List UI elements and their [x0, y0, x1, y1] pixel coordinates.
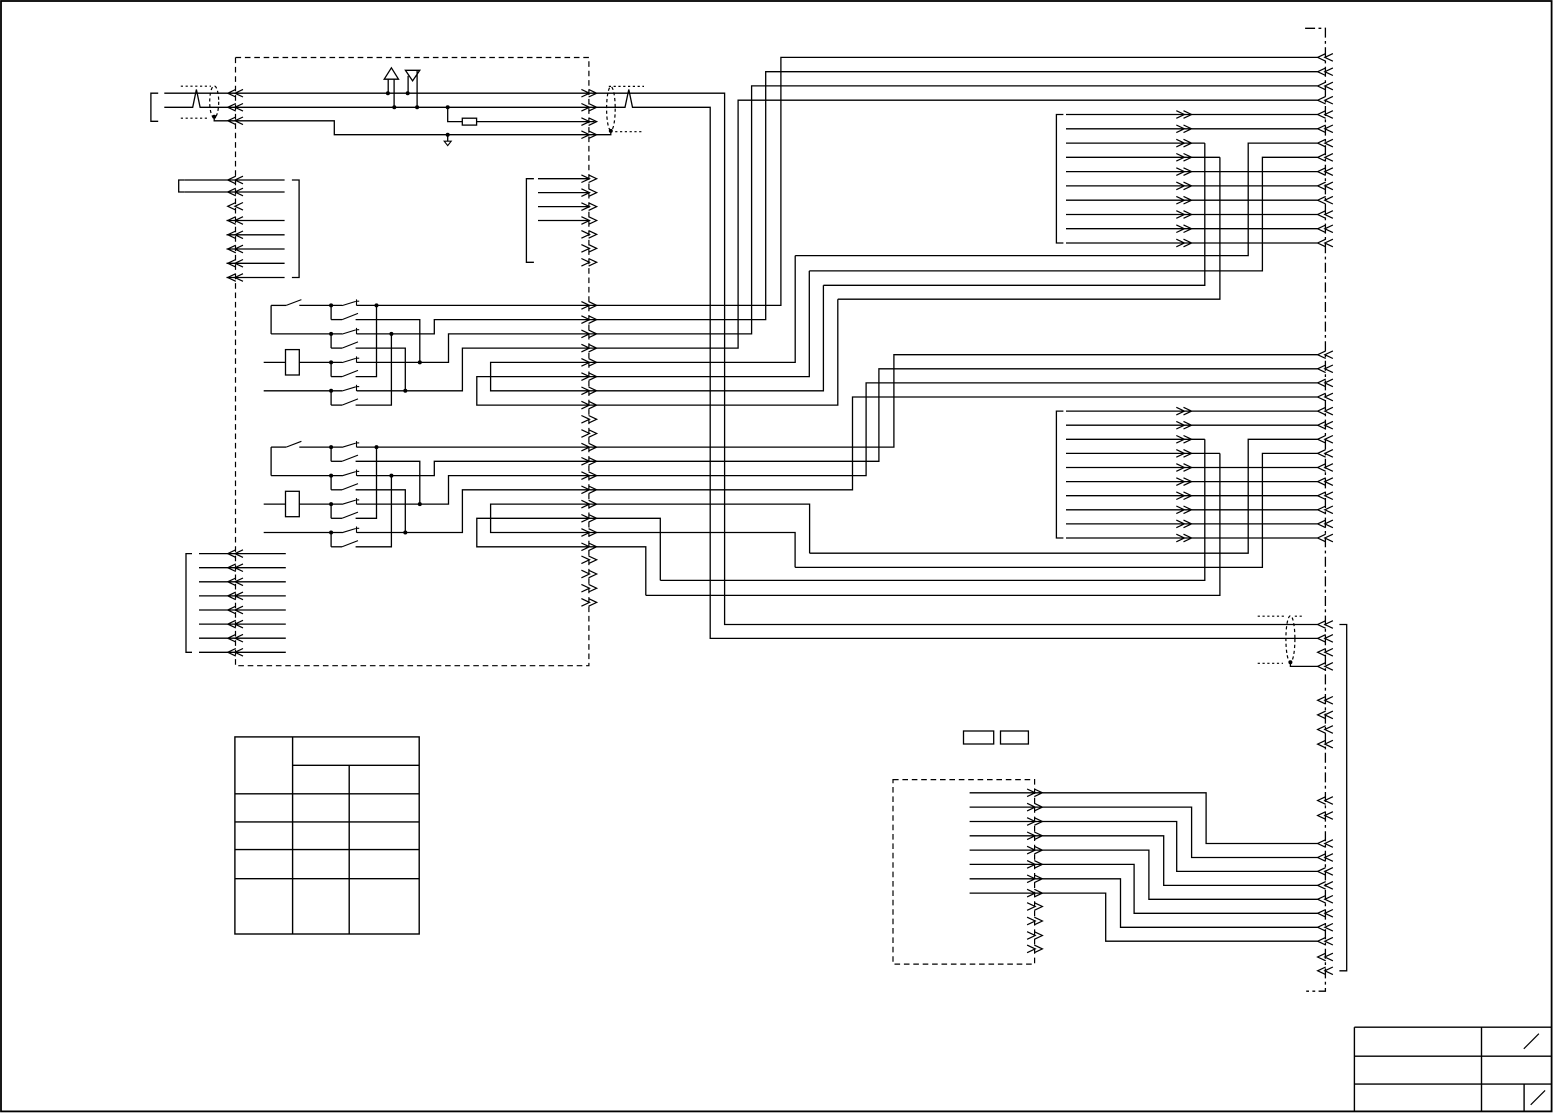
connector chevron right-B row5: [581, 231, 596, 239]
contact K21 junction: [329, 445, 333, 449]
wire aux row5: [970, 850, 1318, 899]
right shield dotted outline: [609, 85, 644, 87]
connector chevron aux-out row1: [1027, 789, 1042, 797]
connector chevron boundary-2 row14: [1318, 534, 1333, 542]
junction up-arrow leg W1: [386, 91, 390, 95]
wire block1 contact2-lower tie: [356, 348, 406, 391]
connector chevron right-B row6: [581, 245, 596, 253]
connector chevron right-B row2: [581, 189, 596, 197]
wire block2 loop row5-row7: [491, 504, 810, 567]
connector chevron bracket-D row2: [1176, 125, 1191, 133]
connector chevron aux-out row6: [1027, 861, 1042, 869]
left input bracket A: [179, 180, 185, 192]
wire bracket-D row4: [1066, 156, 1220, 158]
left shield junction: [212, 115, 216, 119]
wire resistor feed: [448, 107, 463, 121]
wire bracket-D row6: [1066, 185, 1318, 187]
connector chevron spare-A row3: [1318, 726, 1333, 734]
connector chevron aux-out row4: [1027, 832, 1042, 840]
wire left-A row2: [185, 191, 285, 193]
connector chevron bracket-E row8: [1176, 506, 1191, 514]
wire W1 top pair (+) long run to lower-right shield: [164, 93, 1317, 624]
contact K12 lower blade: [330, 334, 332, 348]
contact K24 upper blade: [342, 529, 356, 533]
connector chevron W3 right: [581, 131, 596, 139]
connector chevron block1 row9: [581, 416, 596, 424]
connector chevron lower-shield row3: [1318, 649, 1333, 657]
connector chevron right-B row4: [581, 217, 596, 225]
connector chevron bracket-E row7: [1176, 492, 1191, 500]
wire left-C row1: [199, 553, 286, 555]
wire bracket-E row2: [1066, 424, 1318, 426]
junction down-arrow leg W1: [406, 91, 410, 95]
contact K12 upper blade: [342, 330, 356, 334]
lower shield dotted outline: [1258, 615, 1286, 617]
connector chevron left-A row6: [228, 245, 243, 253]
connector chevron bracket-D row7: [1176, 196, 1191, 204]
wire loop1 lower run: [823, 143, 1204, 285]
connector chevron W2 right: [581, 104, 596, 112]
connector chevron W3 left: [228, 117, 243, 125]
wire W3 shield drain: [214, 117, 611, 135]
ground symbol: [447, 135, 449, 142]
connector chevron lower-shield row1: [1318, 621, 1333, 629]
title block: [1354, 1027, 1551, 1111]
connector chevron block2 row6: [581, 515, 596, 523]
connector chevron lower-shield row2: [1318, 635, 1333, 643]
connector chevron block2 row7: [581, 529, 596, 537]
right shield ellipse: [607, 87, 616, 131]
wire left-A row8 stub: [227, 277, 285, 279]
connector chevron block2 row12: [581, 599, 596, 607]
wire block1 row4 to top bus: [357, 100, 1318, 391]
connector chevron bracket-E row4: [1176, 450, 1191, 458]
connector chevron boundary-2 row13: [1318, 520, 1333, 528]
connector chevron bracket-D row6: [1176, 182, 1191, 190]
wire 2 contact4 common: [264, 532, 342, 534]
connector chevron left-A row3: [228, 203, 243, 211]
connector chevron boundary-1 row5: [1318, 111, 1333, 119]
junction block1 row5 tie: [418, 360, 422, 364]
connector chevron spare-B row1: [1318, 797, 1333, 805]
wire bracket-D row2: [1066, 128, 1318, 130]
switch S1 blade: [271, 304, 286, 306]
auxiliary unit dashed box: [893, 780, 1035, 965]
connector chevron boundary-3 row4: [1318, 882, 1333, 890]
wire lower shield drain: [1290, 662, 1317, 666]
connector chevron aux-spare row3: [1027, 932, 1042, 940]
wire loop2 lower run: [838, 157, 1220, 299]
connector chevron boundary-2 row2: [1318, 365, 1333, 373]
contact K23 upper blade: [342, 500, 356, 504]
connector chevron spare-C row2: [1318, 967, 1333, 975]
junction block2 row7 tie: [403, 531, 407, 535]
wire right-B row2: [538, 192, 589, 194]
contact K13 lower blade: [330, 362, 332, 376]
wire bracket-D row5: [1066, 171, 1318, 173]
surge arrester down-arrow symbol: [405, 70, 419, 81]
contact K24 lower blade: [330, 533, 332, 547]
connector chevron boundary-2 row1: [1318, 351, 1333, 359]
wire loop3 lower run: [795, 453, 1318, 567]
junction down-arrow leg W2: [415, 105, 419, 109]
connector chevron boundary-1 row8: [1318, 154, 1333, 162]
wire block1 row3 to top bus: [357, 86, 1318, 363]
connector chevron boundary-3 row6: [1318, 910, 1333, 918]
contact K11 junction: [329, 303, 333, 307]
connector chevron bracket-D row4: [1176, 154, 1191, 162]
connector chevron left-C row1: [228, 550, 243, 558]
wire aux row7: [970, 879, 1318, 928]
wire right-B row4: [538, 220, 589, 222]
connector chevron left-C row6: [228, 620, 243, 628]
connector chevron left-A row2: [228, 188, 243, 196]
contact K21 upper blade: [342, 443, 356, 447]
wire aux row4: [970, 836, 1318, 886]
connector chevron spare-B row2: [1318, 812, 1333, 820]
connector chevron bracket-D row5: [1176, 168, 1191, 176]
connector chevron left-A row1: [228, 176, 243, 184]
connector chevron boundary-3 row7: [1318, 924, 1333, 932]
right output bracket B: [526, 179, 534, 263]
resistor R1: [286, 350, 300, 375]
connector chevron block2 row5: [581, 500, 596, 508]
connector chevron boundary-1 row12: [1318, 211, 1333, 219]
connector chevron aux-out row2: [1027, 803, 1042, 811]
wire block1 contact4-lower tie: [356, 334, 392, 405]
wire bracket-E row7: [1066, 495, 1318, 497]
wire loop4 lower run: [660, 439, 1205, 580]
signal bracket E: [1056, 411, 1063, 538]
connector chevron spare-C row1: [1318, 953, 1333, 961]
connector chevron block2 row4: [581, 486, 596, 494]
connector chevron boundary-3 row3: [1318, 868, 1333, 876]
wire loop4 bottom run: [646, 453, 1220, 595]
connector chevron block2 row2: [581, 458, 596, 466]
contact K14 upper blade: [342, 387, 356, 391]
connector chevron boundary-2 row11: [1318, 492, 1333, 500]
wire left-A row6 stub: [227, 248, 285, 250]
contact K23 junction: [329, 502, 333, 506]
connector chevron aux-spare row1: [1027, 903, 1042, 911]
connector chevron boundary-1 row2: [1318, 68, 1333, 76]
connector chevron block2 row10: [581, 570, 596, 578]
connector chevron spare-A row4: [1318, 740, 1333, 748]
wire left-C row8: [199, 651, 286, 653]
junction W3 ground tap: [446, 133, 450, 137]
connector chevron block1 row3: [581, 330, 596, 338]
connector chevron W1 left: [228, 89, 243, 97]
wire bracket-D row1: [1066, 114, 1318, 116]
connector chevron boundary-1 row6: [1318, 125, 1333, 133]
connector chevron left-C row2: [228, 564, 243, 572]
connector chevron aux-spare row2: [1027, 917, 1042, 925]
contact K21 lower blade: [330, 447, 332, 461]
connector chevron block2 row1: [581, 443, 596, 451]
wire bracket-D row9: [1066, 228, 1318, 230]
connector chevron spare-A row2: [1318, 711, 1333, 719]
wire W2 top pair (-) long run to lower-right shield: [164, 90, 1317, 639]
wire loop3 upper run: [810, 439, 1318, 553]
connector chevron block2 row8: [581, 543, 596, 551]
switch S2 blade: [271, 446, 286, 448]
wire left-A row4 stub: [227, 220, 285, 222]
connector chevron boundary-2 row7: [1318, 436, 1333, 444]
connector chevron boundary-2 row12: [1318, 506, 1333, 514]
connector chevron aux-out row8: [1027, 889, 1042, 897]
connector chevron aux-out row7: [1027, 875, 1042, 883]
wire bracket-D row8: [1066, 214, 1318, 216]
wire 1 resistor row stub: [264, 361, 286, 363]
connector chevron boundary-3 row2: [1318, 854, 1333, 862]
connector chevron block1 row10: [581, 430, 596, 438]
wire bracket-D row3: [1066, 142, 1205, 144]
wire left-A row5 stub: [227, 234, 285, 236]
connector chevron left-C row4: [228, 592, 243, 600]
connector chevron block1 row5: [581, 359, 596, 367]
wire aux row3: [970, 822, 1318, 872]
connector chevron bracket-E row2: [1176, 421, 1191, 429]
wire right-B row1: [538, 178, 589, 180]
wire loop2 upper run: [809, 157, 1317, 271]
connector chevron block2 row9: [581, 556, 596, 564]
wire 2 resistor row stub: [264, 503, 286, 505]
wire block2 row3 to boundary: [357, 383, 1318, 504]
connector chevron bracket-E row1: [1176, 407, 1191, 415]
connector chevron bracket-E row3: [1176, 436, 1191, 444]
connector chevron block1 row8: [581, 401, 596, 409]
connector chevron block2 row11: [581, 584, 596, 592]
connector chevron bracket-E row6: [1176, 478, 1191, 486]
connector chevron right-B row1: [581, 175, 596, 183]
connector chevron boundary-2 row8: [1318, 450, 1333, 458]
wire S1 common link vertical: [270, 305, 272, 334]
terminal bracket A right: [292, 180, 299, 278]
connector chevron bracket-E row10: [1176, 534, 1191, 542]
reference table: [235, 737, 419, 934]
wire bracket-E row9: [1066, 523, 1318, 525]
connector chevron block2 row3: [581, 472, 596, 480]
connector chevron bracket-D row1: [1176, 111, 1191, 119]
connector chevron boundary-3 row5: [1318, 896, 1333, 904]
contact K22 upper blade: [342, 472, 356, 476]
connector chevron boundary-1 row4: [1318, 96, 1333, 104]
indicator rectangle 1: [964, 731, 994, 744]
wire bracket-E row3: [1066, 438, 1205, 440]
connector chevron bracket-E row9: [1176, 520, 1191, 528]
wire left-C row7: [199, 637, 286, 639]
wire block1 loop row6-row8: [477, 271, 838, 405]
left shield dotted outline: [181, 85, 211, 87]
wire block2 row1 to boundary: [357, 355, 1318, 447]
connector chevron boundary-2 row9: [1318, 464, 1333, 472]
connector chevron boundary-1 row9: [1318, 168, 1333, 176]
contact K11 lower blade: [330, 305, 332, 319]
wire block2 loop row6-row8: [477, 518, 661, 595]
connector chevron lower-shield row4: [1318, 663, 1333, 671]
wire bracket-E row8: [1066, 509, 1318, 511]
wire left-C row4: [199, 595, 286, 597]
wire left-C row2: [199, 567, 286, 569]
wire loop1 upper run: [795, 143, 1317, 256]
contact K13 upper blade: [342, 358, 356, 362]
connector chevron left-A row4: [228, 217, 243, 225]
wire left-C row5: [199, 609, 286, 611]
connector chevron boundary-3 row8: [1318, 937, 1333, 945]
wire block1 row1 to top bus: [357, 57, 1318, 305]
lower shield ellipse: [1286, 616, 1295, 662]
connector chevron aux-out row5: [1027, 846, 1042, 854]
connector chevron boundary-2 row5: [1318, 407, 1333, 415]
lower shield junction: [1288, 660, 1292, 664]
connector chevron boundary-2 row6: [1318, 421, 1333, 429]
connector chevron resistor wire right: [581, 118, 596, 126]
connector chevron aux-spare row4: [1027, 945, 1042, 953]
contact K22 junction: [329, 474, 333, 478]
connector chevron bracket-D row8: [1176, 211, 1191, 219]
connector chevron block1 row6: [581, 373, 596, 381]
junction block1 row3/contact4-lower: [389, 332, 393, 336]
wire 1 contact4 common: [264, 390, 342, 392]
wire aux row8: [970, 893, 1318, 941]
connector chevron left-C row8: [228, 649, 243, 657]
wire resistor output: [477, 121, 595, 123]
wire 2 resistor to contact3: [299, 503, 342, 505]
connector chevron block1 row4: [581, 344, 596, 352]
connector chevron boundary-1 row13: [1318, 225, 1333, 233]
wire left-A row7 stub: [227, 262, 285, 264]
contact K24 junction: [329, 531, 333, 535]
wire aux row2: [970, 807, 1318, 857]
connector chevron left-C row7: [228, 634, 243, 642]
left cable bracket: [151, 93, 158, 121]
connector chevron bracket-D row3: [1176, 139, 1191, 147]
connector chevron W1 right: [581, 89, 596, 97]
wire bracket-E row1: [1066, 410, 1318, 412]
wire left-C row6: [199, 623, 286, 625]
wire bracket-D row7: [1066, 199, 1318, 201]
wire bracket-E row10: [1066, 537, 1318, 539]
wire block1 contact1-lower tie: [356, 320, 420, 363]
wire block2 contact4-lower tie: [356, 476, 392, 547]
surge arrester up-arrow symbol: [384, 68, 398, 79]
connector chevron block1 row2: [581, 316, 596, 324]
connector chevron bracket-D row9: [1176, 225, 1191, 233]
contact K13 junction: [329, 360, 333, 364]
left input bracket C: [186, 554, 192, 653]
connector chevron boundary-1 row7: [1318, 139, 1333, 147]
signal bracket D: [1056, 115, 1063, 244]
connector chevron left-A row8: [228, 274, 243, 282]
connector chevron aux-out row3: [1027, 818, 1042, 826]
resistor R2: [286, 491, 300, 516]
connector chevron boundary-2 row3: [1318, 379, 1333, 387]
connector chevron boundary-1 row14: [1318, 239, 1333, 247]
interface boundary dash-dot line: [1305, 28, 1325, 991]
wire right-B row3: [538, 206, 589, 208]
connector chevron left-C row5: [228, 606, 243, 614]
connector chevron boundary-2 row10: [1318, 478, 1333, 486]
connector chevron right-B row7: [581, 259, 596, 267]
contact K22 lower blade: [330, 476, 332, 490]
wire S2 common link vertical: [270, 447, 272, 476]
wire bracket-E row6: [1066, 481, 1318, 483]
connector chevron bracket-D row10: [1176, 239, 1191, 247]
indicator rectangle 2: [1001, 731, 1029, 744]
contact K14 junction: [329, 389, 333, 393]
connector chevron boundary-2 row4: [1318, 393, 1333, 401]
junction W2 resistor tap: [446, 105, 450, 109]
wire bracket-D row10: [1066, 242, 1318, 244]
right shield junction: [609, 129, 613, 133]
wire 1 contact2 common: [271, 333, 342, 335]
connector chevron block1 row1: [581, 302, 596, 310]
connector chevron boundary-1 row3: [1318, 82, 1333, 90]
wire bracket-E row5: [1066, 467, 1318, 469]
junction up-arrow leg W2: [392, 105, 396, 109]
connector chevron left-C row3: [228, 578, 243, 586]
connector chevron spare-A row1: [1318, 697, 1333, 705]
wire block2 row4 to boundary: [357, 397, 1318, 533]
wire left-A row1: [185, 179, 285, 181]
contact K14 lower blade: [330, 391, 332, 405]
wire block1 contact3-lower tie: [356, 305, 377, 376]
junction block1 row1/contact3-lower: [375, 303, 379, 307]
wire aux row1: [970, 793, 1318, 844]
connector chevron bracket-E row5: [1176, 464, 1191, 472]
connector chevron block1 row7: [581, 387, 596, 395]
contact K11 upper blade: [342, 301, 356, 305]
contact K23 lower blade: [330, 504, 332, 518]
wire block2 row2 to boundary: [357, 369, 1318, 476]
contact K12 junction: [329, 332, 333, 336]
wire block1 row2 to top bus: [357, 72, 1318, 334]
connector chevron left-A row7: [228, 260, 243, 268]
junction block2 row1/contact3-lower: [375, 445, 379, 449]
connector chevron boundary-3 row1: [1318, 840, 1333, 848]
left shield ellipse: [210, 86, 219, 118]
cable harness dashed enclosure box: [236, 58, 589, 666]
wire block2 contact1-lower tie: [356, 461, 420, 504]
wire 2 contact2 common: [271, 475, 342, 477]
wire bracket-E row4: [1066, 452, 1220, 454]
terminal bracket F: [1339, 625, 1346, 971]
wire block1 loop row5-row7: [491, 256, 824, 391]
connector chevron boundary-1 row1: [1318, 54, 1333, 62]
connector chevron W2 left: [228, 104, 243, 112]
connector chevron right-B row3: [581, 203, 596, 211]
wire 1 resistor to contact3: [299, 361, 342, 363]
wire aux row6: [970, 864, 1318, 913]
junction block1 row7 tie: [403, 389, 407, 393]
connector chevron boundary-1 row10: [1318, 182, 1333, 190]
junction block2 row5 tie: [418, 502, 422, 506]
wire block2 contact2-lower tie: [356, 490, 406, 533]
wire block2 contact3-lower tie: [356, 447, 377, 518]
connector chevron boundary-1 row11: [1318, 196, 1333, 204]
junction block2 row3/contact4-lower: [389, 474, 393, 478]
connector chevron left-A row5: [228, 231, 243, 239]
wire left-C row3: [199, 581, 286, 583]
resistor R1 terminating: [462, 118, 476, 125]
